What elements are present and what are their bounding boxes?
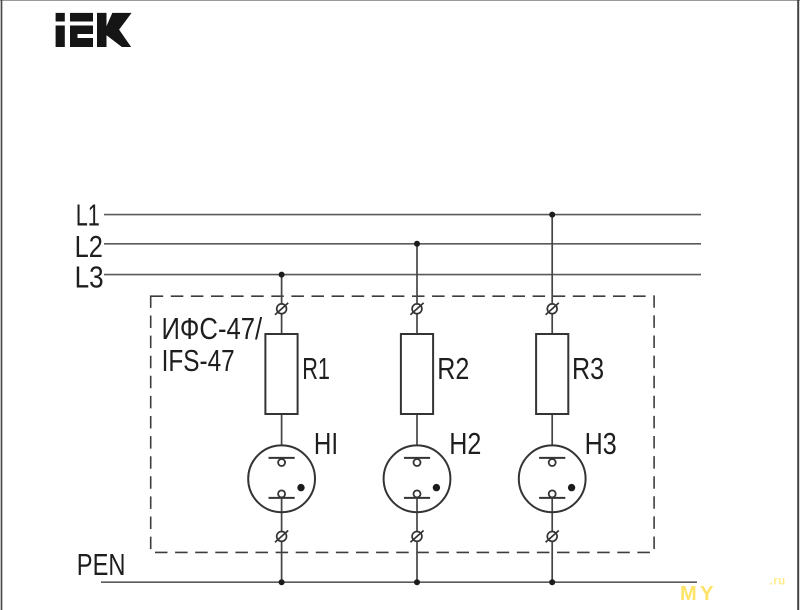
- svg-text:IFS-47: IFS-47: [162, 343, 235, 377]
- svg-text:.ru: .ru: [770, 576, 786, 588]
- svg-text:PEN: PEN: [77, 547, 126, 582]
- svg-text:R2: R2: [437, 350, 469, 385]
- svg-text:L1: L1: [76, 198, 100, 233]
- svg-text:HI: HI: [314, 426, 338, 461]
- svg-text:L3: L3: [75, 260, 104, 295]
- svg-text:R1: R1: [302, 351, 330, 386]
- svg-text:H2: H2: [449, 425, 481, 460]
- svg-text:R3: R3: [572, 350, 604, 385]
- svg-text:H3: H3: [585, 425, 617, 460]
- svg-text:L2: L2: [75, 230, 103, 265]
- svg-text:MY: MY: [680, 583, 717, 605]
- svg-text:ИФС-47/: ИФС-47/: [162, 312, 263, 347]
